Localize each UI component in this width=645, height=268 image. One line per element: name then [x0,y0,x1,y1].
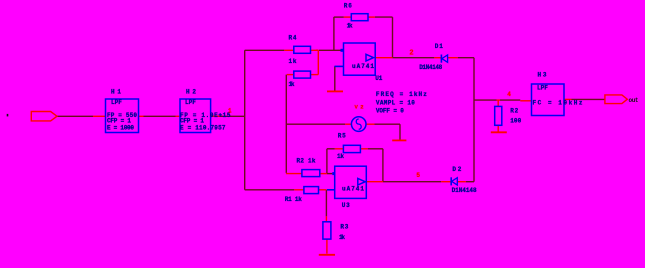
svg-text:R2 1k: R2 1k [297,157,316,164]
svg-text:5: 5 [416,172,420,179]
svg-text:1k: 1k [289,81,295,88]
svg-text:D1N4148: D1N4148 [452,187,477,194]
svg-text:H2: H2 [186,89,196,96]
svg-text:1k: 1k [347,22,353,29]
svg-text:out: out [629,97,639,104]
svg-text:D2: D2 [452,166,461,173]
svg-text:D1: D1 [435,43,443,50]
svg-text:U3: U3 [342,202,350,209]
svg-text:LPF: LPF [111,99,122,106]
svg-text:4: 4 [507,91,511,98]
svg-text:R6: R6 [344,3,352,10]
svg-text:R5: R5 [338,132,346,139]
svg-text:R2: R2 [510,108,518,115]
svg-text:LPF: LPF [185,99,196,106]
svg-text:R4: R4 [289,35,297,42]
svg-text:1k: 1k [339,234,345,241]
svg-text:FREQ = 1kHz: FREQ = 1kHz [376,91,427,98]
svg-text:VOFF = 0: VOFF = 0 [376,107,404,114]
svg-text:uA741: uA741 [342,185,364,192]
svg-text:LPF: LPF [537,84,548,91]
svg-text:E = 1000: E = 1000 [107,124,134,131]
svg-text:2: 2 [409,49,413,57]
svg-text:E = 110.7957: E = 110.7957 [180,124,226,131]
svg-text:V2: V2 [355,103,364,110]
svg-text:H3: H3 [538,72,547,79]
svg-text:100: 100 [510,118,521,125]
svg-text:1k: 1k [289,58,297,65]
svg-text:1: 1 [228,108,232,115]
svg-text:VAMPL = 10: VAMPL = 10 [376,99,415,106]
svg-text:R3: R3 [340,223,348,230]
svg-text:R1 1k: R1 1k [285,196,302,203]
svg-text:U1: U1 [375,75,382,82]
svg-text:D1N4148: D1N4148 [419,64,442,71]
svg-text:H1: H1 [111,89,121,96]
svg-text:uA741: uA741 [352,63,374,70]
svg-text:FC = 10kHz: FC = 10kHz [533,99,583,106]
svg-text:1k: 1k [337,153,344,160]
